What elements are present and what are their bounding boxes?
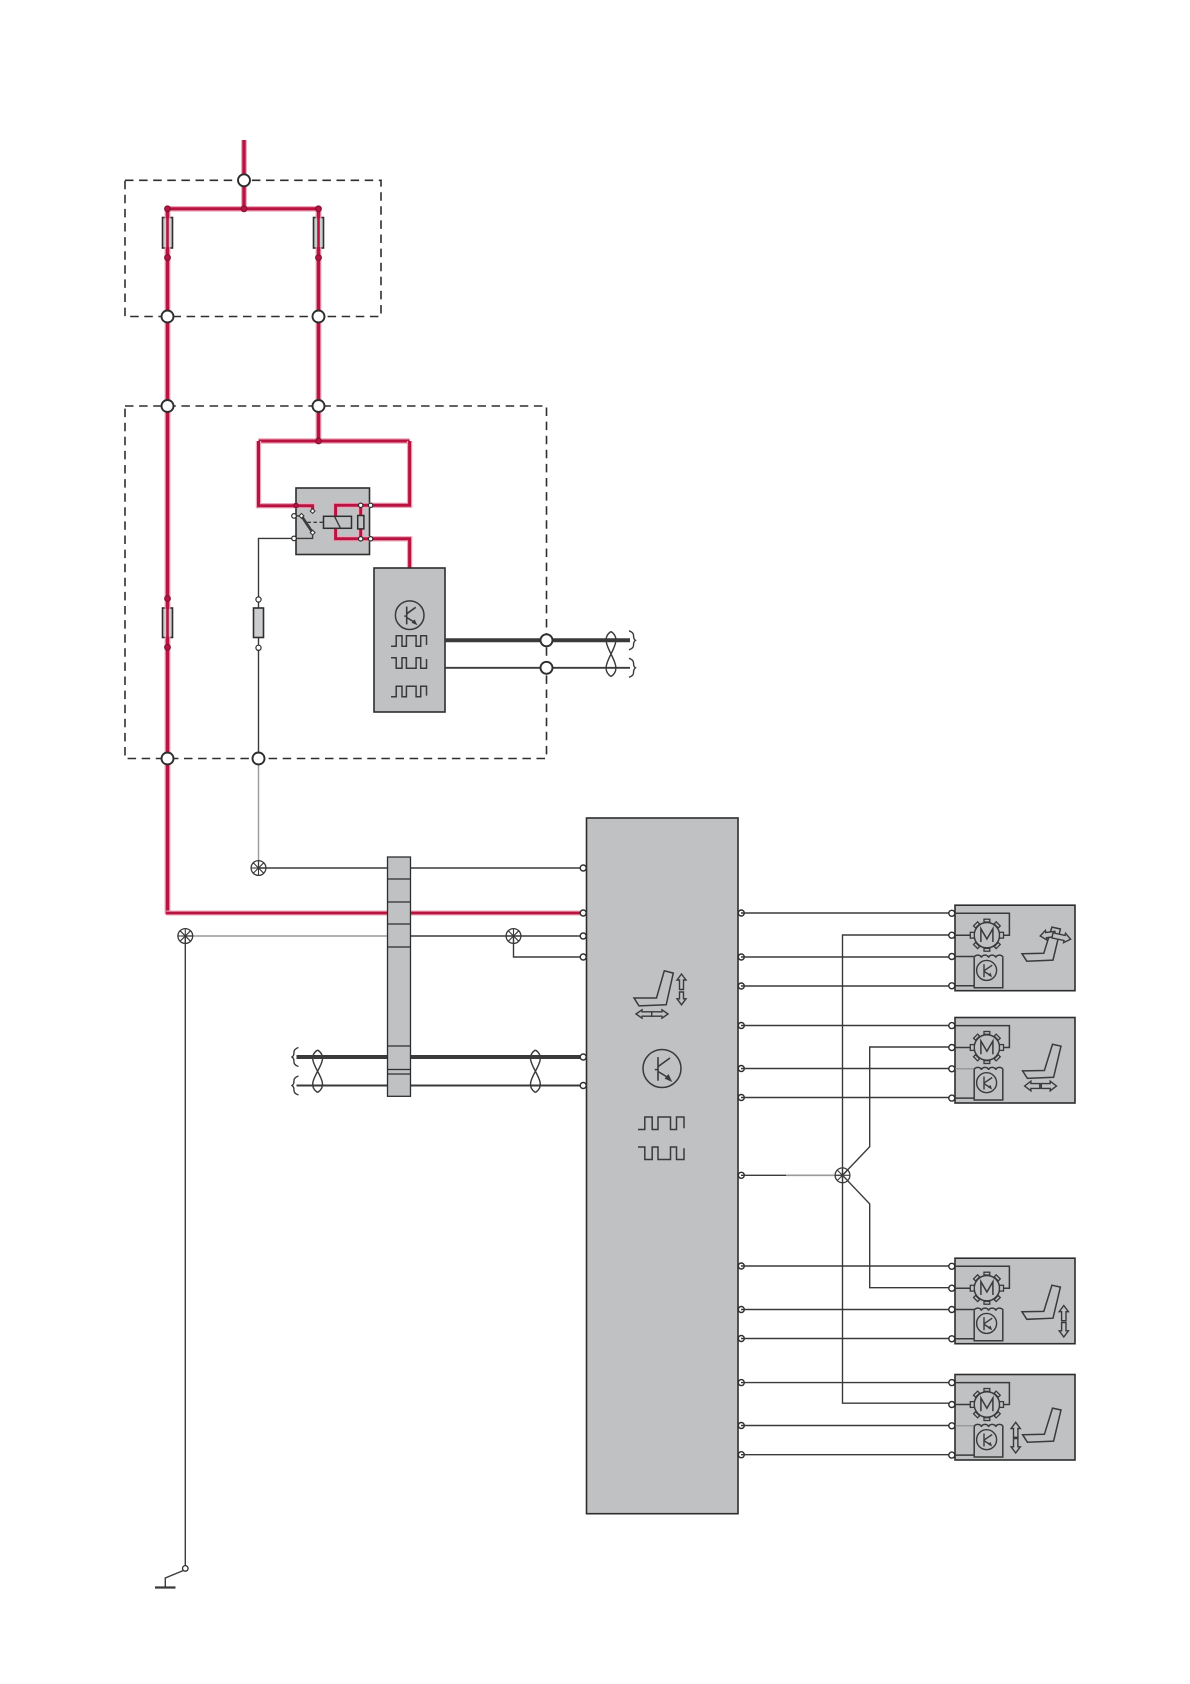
red battery feed wire (top) [241,140,247,209]
motor unit M1: box [955,905,1075,991]
wire: ground run to control module (via splice S2, S3) [185,936,583,957]
motor unit M2: motor symbol M [970,1032,1003,1064]
red wire relay to seat ECU [371,539,410,569]
motor unit M3: seat icon (rear height) [1022,1285,1068,1337]
wire: splice S1 to control module [259,867,584,869]
splice S4 [835,1168,850,1183]
seat control module U2: right pins [738,910,744,1458]
relay K1: pins [292,503,373,541]
fuse F1 [163,218,173,249]
seat control module U2: body [587,818,739,1514]
motor unit M4: pins [949,1380,955,1459]
seat control module U2: PWM symbols [638,1117,684,1160]
motor unit M3: motor symbol M [970,1272,1003,1304]
wire: ground drop [184,936,186,1566]
motor unit M2: internal wiring [952,1026,1009,1099]
twisted pair from seat module U1 [445,631,636,678]
wire: relay switch output to fuse F3 and splice S1 [259,538,295,868]
motor unit M4: box [955,1375,1075,1461]
fuse F2 [314,218,324,249]
connector circles [162,174,553,764]
seat module U1: transistor symbol [395,601,424,630]
motor unit M3: position sensor K [974,1308,1003,1341]
relay K1: body [296,488,370,555]
wires: control module to motor unit M1 [741,913,949,986]
red wire to relay coil [371,441,410,505]
red bus to relay [259,438,410,443]
seat module U1: PWM symbols [391,636,427,697]
motor unit M4: seat icon (front height) [1011,1408,1061,1453]
fuse F3 [163,608,173,638]
relay K1: red coil loop [336,505,371,539]
connector C1 (inline connector bar) [388,857,411,1096]
motor unit M1: position sensor K [974,955,1003,988]
red feed, left column down to control module [166,209,583,915]
motor unit M2: position sensor K [974,1067,1003,1100]
twisted pair into control module (left) [292,1048,583,1096]
seat control module U2: left pins [580,865,586,1089]
red bus in fuse box [168,206,319,212]
common feed riser B (M2/M3 motors) [843,1047,950,1288]
motor unit M3: box [955,1258,1075,1344]
common feed riser A (M1/M4 motors) [843,935,950,1403]
motor unit M2: pins [949,1023,955,1102]
splice S1 [251,861,266,876]
motor unit M2: seat icon (fore/aft slide) [1023,1044,1061,1091]
seat control module U2: transistor symbol [643,1050,681,1088]
splice S2 [178,929,193,944]
motor unit M3: pins [949,1263,955,1342]
motor unit M2: box [955,1018,1075,1104]
wires: control module to motor unit M2 [741,1026,949,1098]
motor unit M1: internal wiring [952,913,1009,986]
fuse F4 [254,597,264,651]
motor unit M4: motor symbol M [970,1389,1003,1421]
motor unit M4: position sensor K [974,1424,1003,1457]
red feed, right column to relay [316,209,322,441]
motor unit M1: seat icon (backrest tilt) [1022,927,1072,961]
wire: control module to splice S4 [741,1174,843,1176]
wires: control module to motor unit M3 [741,1266,949,1339]
red wire into relay switch [259,441,313,509]
relay K1: coil [324,516,352,528]
motor unit M4: internal wiring [952,1383,1009,1456]
fuse box (dashed enclosure) [125,180,381,316]
relay/ECU module (dashed enclosure) [125,406,547,759]
wires: control module to motor unit M4 [741,1383,949,1455]
seat module U1: body [374,568,445,712]
red junction dots [165,206,322,650]
motor unit M3: internal wiring [952,1266,1009,1339]
ground G1 [155,1566,188,1588]
motor unit M1: motor symbol M [970,919,1003,951]
relay K1: resistor [358,516,364,529]
seat control module U2: seat icon [634,971,686,1018]
motor unit M1: pins [949,910,955,989]
splice S3 [506,929,521,944]
relay K1: switch [294,509,324,539]
